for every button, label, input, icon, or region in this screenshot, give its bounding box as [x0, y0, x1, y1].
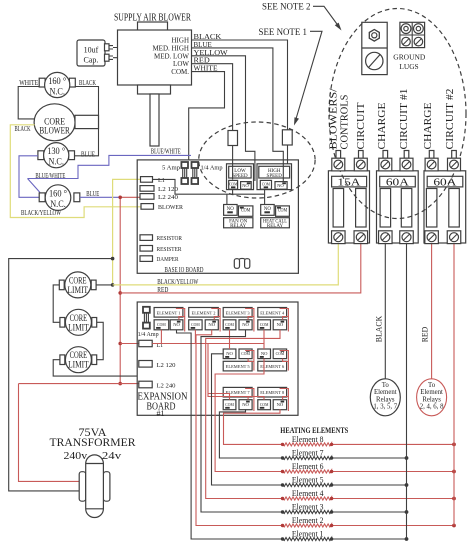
- thermostat 160 N.C. (bottom): [39, 185, 80, 211]
- core limit 3: [60, 347, 97, 373]
- base IO board: [137, 160, 298, 274]
- wire red branch to expansion L1: [120, 343, 139, 345]
- wire red bus from breaker 3 right pole: [453, 244, 455, 526]
- svg-text:ELEMENT 8: ELEMENT 8: [260, 390, 285, 395]
- svg-text:To: To: [428, 382, 436, 389]
- svg-text:HEATING ELEMENTS: HEATING ELEMENTS: [280, 426, 348, 435]
- heating element 2: [281, 516, 456, 527]
- svg-text:RELAY: RELAY: [267, 224, 284, 229]
- svg-text:CHARGE: CHARGE: [423, 103, 434, 150]
- svg-text:MED. HIGH: MED. HIGH: [152, 44, 189, 52]
- core limit 1: [59, 272, 96, 298]
- svg-text:160 °: 160 °: [49, 189, 67, 200]
- wire core limit 1 right to junction: [96, 284, 113, 286]
- callout ellipse to element relays 1357: [370, 379, 400, 416]
- wire black bus from breaker 2 right pole: [406, 244, 408, 539]
- svg-text:MED. LOW: MED. LOW: [154, 52, 189, 60]
- svg-text:BLACK: BLACK: [15, 125, 31, 133]
- svg-text:ELEMENT 3: ELEMENT 3: [226, 310, 251, 315]
- svg-text:L1: L1: [158, 177, 165, 184]
- see note 1 callout: [259, 28, 323, 126]
- svg-text:60A: 60A: [433, 177, 457, 188]
- wire blue 160NC right to junction: [80, 190, 120, 198]
- svg-text:LIMIT: LIMIT: [68, 285, 89, 295]
- svg-text:CHARGE: CHARGE: [377, 103, 388, 150]
- expansion board #1: [137, 302, 298, 418]
- ground lugs label: [393, 53, 425, 72]
- svg-text:Relays: Relays: [376, 396, 395, 403]
- terminal L1 (base): [141, 177, 165, 184]
- svg-text:NO: NO: [277, 402, 284, 407]
- circuit breaker 15A: [328, 151, 369, 244]
- wire red main vertical: [118, 196, 140, 386]
- transformer T1 75VA: [50, 427, 136, 517]
- wire red supply bus (expansion): [152, 330, 264, 349]
- svg-text:ELEMENT 5: ELEMENT 5: [226, 364, 251, 369]
- svg-text:N.C.: N.C.: [49, 88, 65, 98]
- svg-text:COM: COM: [262, 182, 270, 187]
- element relay 7: [223, 387, 252, 409]
- element relay 5: [223, 349, 252, 371]
- supply air blower M1: [118, 22, 192, 146]
- dashed ellipse around speed relays: [199, 122, 315, 198]
- terminal L2 240 (base): [140, 194, 178, 201]
- breaker column label BLOWERS/: [329, 88, 340, 149]
- heating element 6: [281, 462, 456, 473]
- terminal RESISTOR: [140, 235, 182, 242]
- wire BLACK (160NC to core blower notch / 130NC): [74, 79, 98, 156]
- heating element 1: [281, 530, 409, 541]
- wire feed element 8: [224, 409, 283, 444]
- svg-text:NO: NO: [277, 322, 284, 327]
- wire feed element 7: [219, 409, 282, 458]
- svg-text:1/4 Amp: 1/4 Amp: [138, 332, 159, 338]
- svg-text:RESISTOR: RESISTOR: [157, 236, 183, 242]
- svg-text:WHITE: WHITE: [19, 79, 38, 87]
- terminal L1 (expansion): [139, 340, 163, 349]
- svg-text:CORE: CORE: [70, 350, 88, 360]
- thermostat 160 N.C. (top): [39, 72, 75, 97]
- svg-text:COM: COM: [225, 402, 234, 407]
- wire red to expansion L2 240: [120, 383, 139, 385]
- svg-text:ELEMENT 4: ELEMENT 4: [260, 310, 285, 315]
- svg-text:NO: NO: [261, 351, 268, 356]
- wire BLUE from blower MED.HIGH: [192, 40, 284, 181]
- svg-text:Element: Element: [374, 389, 397, 396]
- wire BLACK from blower HIGH: [192, 32, 288, 130]
- wire black tee to transformer: [9, 259, 113, 491]
- breaker column label CHARGE: [377, 103, 388, 150]
- svg-text:RED: RED: [421, 327, 430, 343]
- circuit breaker 60A no.2: [424, 151, 466, 244]
- svg-text:HIGH: HIGH: [172, 37, 190, 45]
- wire red weave around element relays: [176, 309, 185, 332]
- breaker column label CHARGE: [423, 103, 434, 150]
- svg-text:24v: 24v: [102, 451, 122, 462]
- terminal L2 120 (expansion): [139, 361, 176, 370]
- ground lug block (nut and screw): [362, 22, 387, 74]
- svg-text:ELEMENT 2: ELEMENT 2: [192, 310, 216, 315]
- svg-text:160 °: 160 °: [48, 76, 66, 87]
- fuse F2 1/4 Amp: [192, 162, 223, 184]
- svg-text:240v: 240v: [64, 451, 88, 462]
- wire blue/white to base board: [28, 147, 192, 192]
- wire core limit 2 right to core limit 3: [97, 322, 104, 359]
- svg-text:COM: COM: [276, 351, 285, 356]
- svg-text:COM: COM: [260, 402, 269, 407]
- svg-text:#1: #1: [157, 409, 165, 418]
- svg-text:NO: NO: [226, 351, 233, 356]
- svg-text:BLACK: BLACK: [79, 79, 96, 87]
- svg-text:NO: NO: [242, 322, 249, 327]
- svg-text:CORE: CORE: [70, 313, 88, 323]
- heating element 4: [281, 489, 456, 500]
- svg-text:L2 240: L2 240: [158, 194, 178, 201]
- svg-text:COM.: COM.: [171, 68, 189, 76]
- supply air blower label: [114, 13, 191, 24]
- element relay 8: [258, 387, 287, 409]
- svg-text:2, 4, 6, 8: 2, 4, 6, 8: [420, 404, 444, 411]
- wire black to element relays 1357: [375, 244, 386, 379]
- wire black/yellow to 15A breaker: [113, 244, 339, 286]
- element relay 2: [189, 308, 219, 330]
- callout ellipse to element relays 2468: [417, 379, 447, 416]
- wire feed element 5: [212, 354, 283, 485]
- wire feed element 2: [196, 330, 283, 526]
- svg-text:NO: NO: [242, 402, 249, 407]
- relay HEAT CALL: [261, 205, 290, 230]
- svg-text:Element: Element: [420, 389, 443, 396]
- svg-text:SEE NOTE 2: SEE NOTE 2: [262, 3, 311, 13]
- fuse F1 5 Amp: [162, 162, 188, 184]
- wire feed element 6: [215, 359, 282, 472]
- wire yellow from base L1 down: [111, 179, 141, 286]
- wire WHITE (160NC to core blower): [18, 79, 39, 119]
- element relay 4: [258, 308, 287, 330]
- svg-text:COM: COM: [278, 208, 288, 213]
- svg-text:BLUE/WHITE: BLUE/WHITE: [35, 172, 65, 180]
- wire RED from blower LOW: [192, 56, 233, 131]
- svg-text:COM: COM: [191, 322, 200, 327]
- heating element 8: [281, 435, 456, 446]
- svg-text:RELAY: RELAY: [230, 224, 247, 229]
- svg-text:COM: COM: [241, 351, 250, 356]
- relay FAN ON: [224, 205, 253, 230]
- svg-text:BASE IO BOARD: BASE IO BOARD: [165, 265, 204, 274]
- svg-text:N.C.: N.C.: [48, 158, 64, 168]
- svg-text:COM: COM: [241, 208, 251, 213]
- breaker column label CIRCUIT: [356, 102, 367, 150]
- fuse F3 1/4 Amp (expansion): [138, 307, 159, 338]
- thermostat 130 N.C.: [38, 143, 95, 168]
- svg-text:GROUND: GROUND: [393, 53, 425, 62]
- wire red to transformer primary: [19, 384, 121, 482]
- element relay 1: [154, 308, 183, 330]
- element relay 6: [258, 349, 287, 371]
- svg-text:To: To: [382, 382, 390, 389]
- terminal RESISTER: [140, 246, 182, 253]
- heating element 5: [281, 476, 409, 487]
- ground lugs 2x2 block: [400, 22, 425, 47]
- svg-text:CONTROLS: CONTROLS: [340, 94, 351, 149]
- wire core limit 3 left to expansion board: [53, 360, 137, 376]
- svg-text:N.C.: N.C.: [50, 200, 66, 210]
- svg-text:COM: COM: [229, 182, 237, 187]
- heating element 3: [281, 503, 409, 514]
- wire red supply to element relays 7 and 8: [208, 344, 264, 400]
- wire L1 bus to relays: [153, 179, 265, 204]
- core limit 2: [60, 309, 97, 335]
- jumper icon on base board: [234, 258, 250, 268]
- breaker column label CIRCUIT no.1: [399, 89, 410, 150]
- svg-text:NO: NO: [173, 322, 180, 327]
- svg-text:10uf: 10uf: [84, 46, 99, 55]
- dashed ellipse around breaker panel: [329, 9, 466, 219]
- wire black/yellow from core blower to BLOWER terminal: [10, 125, 141, 218]
- svg-text:ELEMENT 1: ELEMENT 1: [157, 310, 181, 315]
- wire YELLOW from blower MED.LOW: [192, 48, 255, 181]
- svg-text:BLUE/WHITE: BLUE/WHITE: [151, 147, 181, 155]
- core blower motor: [34, 104, 98, 141]
- svg-text:15A: 15A: [337, 177, 361, 188]
- svg-text:BLUE: BLUE: [81, 150, 95, 158]
- svg-text:L2 120: L2 120: [157, 363, 176, 369]
- svg-text:COM: COM: [260, 322, 269, 327]
- svg-text:SPEED: SPEED: [267, 174, 283, 179]
- wire blue 130NC left to 160NC left: [19, 156, 39, 198]
- breaker column label CONTROLS: [340, 94, 351, 149]
- svg-text:BLOWER: BLOWER: [158, 204, 184, 211]
- heating elements label: [280, 426, 348, 435]
- heating element 7: [281, 449, 409, 460]
- wire core limit 1 left to core limit 2: [53, 285, 60, 322]
- svg-text:Relays: Relays: [422, 396, 441, 403]
- see note 2 callout: [262, 3, 342, 31]
- wire red to 15A breaker: [120, 244, 361, 294]
- svg-text:SEE NOTE 1: SEE NOTE 1: [259, 28, 308, 38]
- svg-text:LIMIT: LIMIT: [68, 322, 89, 332]
- svg-text:1, 3, 5, 7: 1, 3, 5, 7: [373, 404, 397, 411]
- svg-text:CORE: CORE: [69, 275, 87, 285]
- circuit breaker 60A no.1: [377, 151, 419, 244]
- terminal DAMPER: [140, 256, 179, 263]
- svg-text:TRANSFORMER: TRANSFORMER: [50, 437, 136, 449]
- svg-text:NO: NO: [208, 322, 215, 327]
- terminal L2 240 (expansion): [139, 381, 176, 390]
- svg-text:Cap.: Cap.: [84, 56, 99, 65]
- svg-text:CIRCUIT #1: CIRCUIT #1: [399, 89, 410, 150]
- wire red to element relays 2468: [421, 244, 432, 379]
- wire feed element 4: [206, 330, 283, 499]
- relay HIGH SPEED: [257, 164, 292, 190]
- svg-text:DAMPER: DAMPER: [157, 257, 179, 263]
- svg-text:LUGS: LUGS: [399, 62, 418, 71]
- element relay 3: [223, 308, 252, 330]
- terminal L2 120 (base): [140, 186, 178, 194]
- svg-text:BLOWER: BLOWER: [39, 125, 70, 135]
- svg-text:RESISTER: RESISTER: [157, 247, 182, 253]
- relay LOW SPEED: [227, 164, 254, 190]
- svg-text:CIRCUIT: CIRCUIT: [356, 102, 367, 150]
- terminal BLOWER (base): [141, 204, 184, 212]
- svg-text:BLACK: BLACK: [375, 316, 384, 343]
- wire WHITE from blower COM: [189, 64, 225, 160]
- wire feed element 1: [177, 330, 283, 539]
- svg-text:COM: COM: [225, 322, 234, 327]
- breaker column label CIRCUIT no.2: [445, 89, 456, 150]
- svg-text:60A: 60A: [386, 177, 410, 188]
- svg-text:130 °: 130 °: [47, 146, 65, 157]
- svg-text:1/4 Amp: 1/4 Amp: [201, 165, 223, 172]
- connector J1: [228, 131, 238, 180]
- svg-text:BLOWERS/: BLOWERS/: [329, 88, 340, 149]
- svg-text:CIRCUIT #2: CIRCUIT #2: [445, 89, 456, 150]
- capacitor 10uf: [77, 40, 118, 66]
- svg-text:LIMIT: LIMIT: [68, 360, 89, 370]
- svg-text:5 Amp: 5 Amp: [162, 165, 180, 172]
- svg-text:L2 240: L2 240: [157, 384, 176, 390]
- wire feed element 3: [201, 330, 283, 512]
- svg-text:LOW: LOW: [173, 60, 189, 68]
- connector J2: [282, 130, 292, 164]
- svg-text:SPEED: SPEED: [232, 174, 248, 179]
- svg-text:COM: COM: [157, 322, 166, 327]
